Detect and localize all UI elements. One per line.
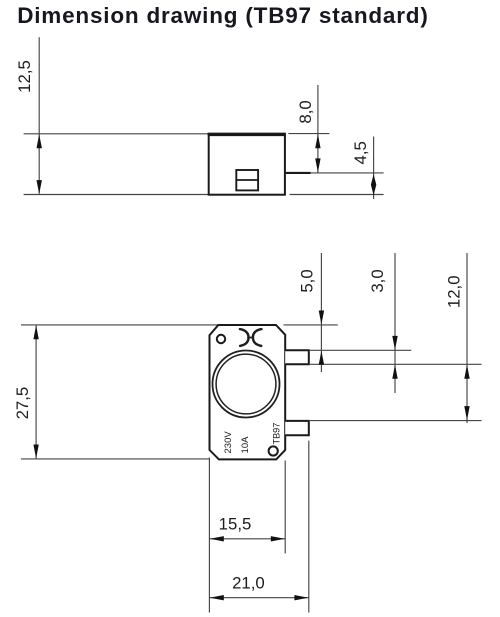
dim 27,5 extension line bottom: [21, 458, 209, 460]
terminal tab 1: [285, 350, 309, 364]
svg-text:3,0: 3,0: [368, 269, 387, 292]
dim 12,5 arrow up: [37, 134, 42, 148]
svg-text:15,5: 15,5: [219, 515, 252, 534]
svg-text:12,5: 12,5: [15, 60, 34, 93]
dim 27,5 arrow up: [33, 325, 38, 339]
dim 5,0 extension (body top level right): [284, 324, 338, 326]
dial inner circle: [216, 354, 276, 414]
svg-text:10A: 10A: [240, 436, 251, 454]
terminal box mid line: [236, 179, 258, 181]
dim 8,0 extension line (body top level, right): [288, 133, 329, 135]
dial outer circle: [213, 351, 280, 418]
dim 4,5 extension line (pin level): [311, 172, 384, 174]
dim 15,5 arrow left: [210, 536, 224, 541]
dim 12,0 arrow down: [464, 406, 469, 420]
mounting hole top-left: [217, 335, 225, 343]
dim 27,5 dimension line: [35, 325, 37, 459]
mounting hole bottom-right: [269, 446, 278, 455]
dim 4,5 dimension line: [373, 137, 375, 200]
tab1 top extension line: [309, 349, 411, 351]
dim 3,0 dimension line: [394, 253, 396, 393]
tab1 bottom extension line: [309, 363, 482, 365]
dim 12,0 arrow up: [464, 365, 469, 379]
dim 15,5 arrow right: [271, 536, 285, 541]
dim 5,0 dimension line: [320, 253, 322, 372]
dim 3,0 arrow up (below tab1 bottom): [392, 365, 397, 379]
svg-text:4,5: 4,5: [351, 141, 370, 164]
svg-text:8,0: 8,0: [296, 100, 315, 123]
terminal box: [236, 170, 258, 190]
dim 8,0 arrow down: [315, 158, 320, 172]
side view body: [209, 134, 285, 195]
svg-text:27,5: 27,5: [13, 387, 32, 420]
tab2 top extension line: [309, 420, 482, 422]
dim 12,5 dimension line: [38, 37, 40, 194]
dim 15,5 extension line left: [208, 458, 210, 613]
dim 8,0 arrow up: [315, 134, 320, 148]
svg-text:5,0: 5,0: [298, 269, 317, 292]
dim 12,5 arrow down: [37, 180, 42, 194]
svg-text:21,0: 21,0: [232, 574, 265, 593]
dim 8,0 dimension line: [317, 85, 319, 173]
dim 3,0 arrow down (above tab1 top): [392, 336, 397, 350]
dim 27,5 arrow down: [33, 445, 38, 459]
svg-text:Dimension drawing (TB97 standa: Dimension drawing (TB97 standard): [17, 3, 428, 28]
dim 15,5 extension line right: [284, 461, 286, 554]
dim 12,5 extension line bottom: [24, 194, 209, 196]
dim 12,5 extension line top: [24, 133, 209, 135]
dim 5,0 arrow down (above body top line): [319, 311, 324, 325]
dim 21,0 extension line right: [308, 441, 310, 613]
dim 4,5 diamond arrows: [371, 174, 376, 195]
dim 21,0 arrow right: [294, 595, 308, 600]
svg-text:TB97: TB97: [272, 423, 282, 445]
logo symbol )(: [240, 329, 262, 346]
thermostat body octagon: [210, 325, 286, 459]
svg-text:230V: 230V: [223, 431, 234, 454]
dim 5,0 arrow up (below tab1 top line): [319, 351, 324, 365]
terminal tab 2: [285, 421, 309, 435]
dim 4,5 extension line (body bottom level): [290, 194, 384, 196]
dim 21,0 dimension line: [209, 597, 308, 599]
dim 21,0 arrow left: [210, 595, 224, 600]
dim 15,5 dimension line: [209, 538, 285, 540]
dim 12,0 dimension line: [466, 253, 468, 423]
side view body thick top edge: [208, 133, 286, 136]
dim 27,5 extension line top: [21, 324, 218, 326]
terminal pin: [286, 172, 311, 174]
svg-text:12,0: 12,0: [445, 275, 464, 308]
